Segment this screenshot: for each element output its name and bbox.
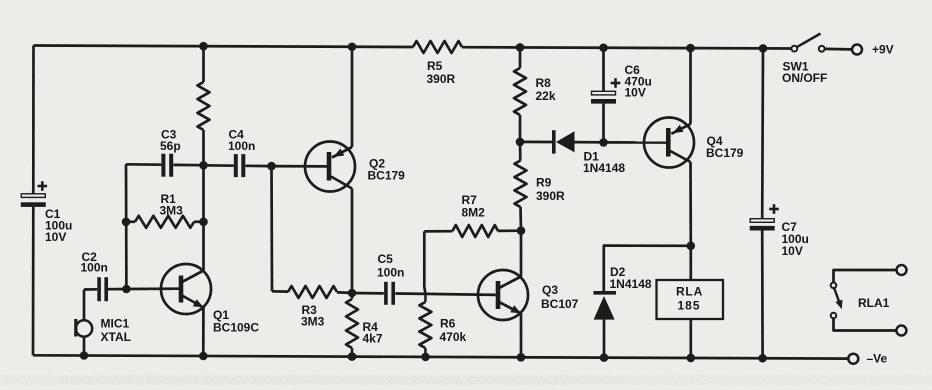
wire R7 right stub (498, 229, 521, 232)
transistor Q3 (478, 270, 528, 320)
node top rail / R2 (199, 42, 208, 51)
wire R2 top stub (202, 46, 205, 82)
svg-text:56p: 56p (160, 139, 181, 153)
wire R6 node to Q3 base (426, 294, 496, 295)
node top rail / R8 (516, 43, 525, 52)
svg-text:BC179: BC179 (368, 169, 406, 183)
svg-text:8M2: 8M2 (462, 206, 486, 220)
wire D1 anode to C6 node (575, 141, 602, 144)
svg-text:1N4148: 1N4148 (610, 277, 652, 291)
node R1 left (122, 218, 131, 227)
wire C7 top stub (761, 48, 764, 218)
capacitor C5 (384, 282, 388, 305)
capacitor C4 (234, 154, 238, 177)
svg-text:RLA1: RLA1 (858, 296, 890, 310)
svg-text:100n: 100n (81, 261, 108, 275)
wire R8 bottom stub (519, 115, 522, 142)
node bottom rail / R4 (348, 352, 357, 361)
wire R9 bottom stub (519, 207, 522, 231)
node C2 / Q1 base (122, 285, 131, 294)
svg-text:R8: R8 (536, 76, 552, 90)
resistor R2 (unlabelled) (198, 82, 210, 130)
switch SW1 left contact (791, 46, 797, 52)
svg-text:3M3: 3M3 (301, 315, 325, 329)
svg-text:BC109C: BC109C (213, 321, 259, 335)
node R3/R4/C5/Q2-collector (348, 289, 357, 298)
svg-text:22k: 22k (536, 89, 556, 103)
wire R8 top stub (519, 47, 522, 68)
svg-text:470k: 470k (440, 330, 467, 344)
svg-text:4k7: 4k7 (363, 332, 383, 346)
wire Q3 emitter to bottom rail (520, 314, 523, 358)
diode D2 (594, 291, 617, 295)
wire MIC1 drop (83, 290, 86, 321)
svg-text:390R: 390R (427, 72, 456, 86)
capacitor C2 (97, 277, 101, 301)
node bottom rail / MIC1 (80, 351, 89, 360)
node Q4 collector / D2 / RLA (687, 242, 696, 251)
wire D2 anode to bottom rail (603, 320, 606, 358)
wire D2 horizontal (604, 246, 691, 291)
wire C3 input segment (126, 163, 161, 166)
node top rail / Q4 emitter (686, 44, 695, 53)
capacitor C6 (592, 91, 616, 95)
wire RLA1 bottom arm (834, 318, 897, 330)
resistor R1 (135, 216, 194, 228)
svg-text:XTAL: XTAL (101, 330, 131, 344)
wire top +9V rail (right of R5) (462, 47, 792, 48)
wire left rail upper (32, 46, 35, 194)
wire C2 to node (108, 288, 126, 291)
wire D1 cathode side (520, 141, 552, 144)
node bottom rail / RLA coil (687, 354, 696, 363)
wire R3 branch drop x272 (270, 166, 273, 291)
capacitor C7 (750, 219, 774, 223)
wire Q1 collector column (202, 165, 205, 270)
node C3/C4/R2/Q1-collector (199, 161, 208, 170)
wire MIC1 to bottom rail (83, 337, 86, 356)
svg-text:BC107: BC107 (541, 297, 579, 311)
terminal RLA1 top (897, 265, 907, 275)
wire R1 left stub (126, 220, 135, 223)
resistor R8 (514, 68, 526, 115)
resistor R3 (288, 286, 337, 298)
wire R2 bottom stub (202, 130, 205, 165)
contact RLA1 upper (831, 283, 837, 289)
svg-text:ON/OFF: ON/OFF (782, 71, 827, 85)
wire SW1 to +9V terminal (825, 48, 852, 51)
terminal +9V (852, 45, 862, 55)
node bottom rail / D2 (600, 353, 609, 362)
wire R1 right stub (194, 220, 204, 223)
svg-text:3M3: 3M3 (160, 204, 184, 218)
wire RLA1 top arm (834, 270, 897, 282)
wire C5 to R6 node (395, 292, 425, 295)
wire C6 top stub (602, 48, 605, 92)
svg-text:MIC1: MIC1 (101, 317, 130, 331)
transistor Q4 (644, 118, 694, 168)
wire Q2 emitter from top rail (351, 47, 354, 147)
svg-text:10V: 10V (625, 86, 646, 100)
wire C4 to node (245, 164, 271, 167)
node R7 / R9 / Q3 collector (517, 226, 526, 235)
microphone MIC1 (76, 320, 92, 336)
node R1 right / Q1 collector line (199, 218, 208, 227)
svg-text:185: 185 (677, 299, 700, 313)
wire C6 bottom stub (602, 104, 605, 143)
terminal -Ve (848, 354, 858, 364)
node top rail / C6 (599, 43, 608, 52)
wire left rail lower (32, 207, 35, 355)
resistor R7 (453, 225, 499, 237)
contact RLA1 lower (831, 313, 837, 319)
wire Q1 emitter to bottom rail (202, 308, 205, 356)
wire R3 left stub (272, 290, 288, 293)
switch blade RLA1 (834, 288, 840, 305)
transistor Q1 (161, 264, 211, 314)
wire R7 left stub (424, 230, 452, 233)
node bottom rail / Q1 emitter (199, 352, 208, 361)
node bottom rail / R6 (421, 353, 430, 362)
svg-text:R5: R5 (427, 59, 443, 73)
wire RLA top (689, 246, 692, 280)
svg-text:10V: 10V (782, 244, 803, 258)
wire feedback column x126 (125, 164, 128, 289)
svg-text:Q3: Q3 (542, 283, 558, 297)
capacitor C1 (21, 194, 45, 198)
svg-text:1N4148: 1N4148 (583, 161, 625, 175)
wire Q3 collector column (520, 231, 523, 277)
resistor R9 (515, 161, 527, 208)
capacitor C3 (161, 154, 165, 177)
wire Q2 collector column (351, 189, 354, 294)
node top rail / C7 (759, 44, 768, 53)
svg-text:R6: R6 (440, 317, 456, 331)
wire C3 to node (173, 164, 203, 167)
node D1 / C6 / Q4 base (599, 138, 608, 147)
svg-text:–Ve: –Ve (867, 352, 888, 366)
svg-text:100n: 100n (228, 139, 255, 153)
wire C7 bottom stub (761, 231, 764, 359)
svg-text:10V: 10V (45, 230, 66, 244)
wire R3 to node (337, 291, 352, 294)
svg-text:R9: R9 (536, 176, 552, 190)
svg-text:C5: C5 (378, 252, 394, 266)
wire node to Q2 base (272, 165, 328, 168)
node C4 / R3 branch (267, 162, 276, 171)
wire R7 riser x424.5 (424, 231, 425, 294)
transistor Q2 (305, 142, 355, 192)
wire top +9V rail (left of R5) (34, 46, 414, 48)
wire MIC1 to C2 (84, 288, 97, 291)
wire Q4 collector column (689, 162, 692, 246)
switch SW1 right contact (819, 46, 825, 52)
resistor R6 (424, 294, 427, 302)
wire Q4 emitter from top rail (689, 48, 692, 124)
node bottom rail / C7 (758, 354, 767, 363)
node R8/R9/D1 (516, 138, 525, 147)
relay coil RLA/185 (657, 280, 724, 319)
node bottom rail / Q3 emitter (517, 353, 526, 362)
svg-text:RLA: RLA (676, 285, 703, 299)
wire R9 top stub (519, 142, 522, 161)
node top rail / Q2 emitter (348, 42, 357, 51)
terminal RLA1 bottom (896, 326, 906, 336)
diode D1 (552, 130, 556, 153)
resistor R4 (351, 293, 354, 299)
svg-text:390R: 390R (536, 189, 565, 203)
resistor R5 (413, 41, 462, 53)
wire node to C5 (352, 292, 384, 295)
svg-text:100n: 100n (377, 266, 404, 280)
svg-text:BC179: BC179 (706, 146, 744, 160)
switch SW1 blade (797, 34, 820, 47)
svg-text:+9V: +9V (872, 43, 894, 57)
wire RLA bottom (689, 319, 692, 358)
wire node to Q4 base (604, 141, 667, 144)
wire node to C4 (204, 164, 234, 167)
wire bottom -Ve rail (33, 355, 848, 358)
